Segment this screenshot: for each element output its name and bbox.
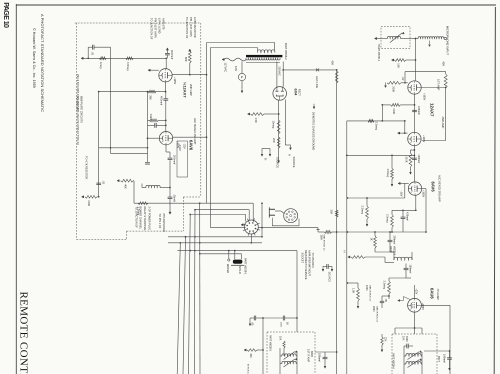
arrow T1 grid: [148, 69, 159, 71]
svg-text:REQUIRED TO SERVICE: REQUIRED TO SERVICE: [304, 250, 308, 280]
note in run 13 bottom: [247, 364, 249, 374]
ground left of D4: [249, 318, 251, 326]
capacitor .05 V4: [380, 301, 384, 302]
svg-text:TO ADJ CAP,: TO ADJ CAP,: [76, 96, 80, 111]
transformer secondary winding: [246, 58, 280, 62]
run y=104.9: [381, 104, 390, 106]
svg-text:PART #8038-2: PART #8038-2: [284, 43, 288, 60]
svg-text:WAFER: WAFER: [226, 264, 230, 273]
note to 4.7K resistor column: [85, 156, 89, 179]
pentode V4 6AU6 4th amp: [408, 298, 422, 312]
ground 180mmf: [324, 363, 326, 368]
resistor 1.5K power: [251, 113, 265, 116]
svg-text:AMPLIFIER WITHOUT: AMPLIFIER WITHOUT: [308, 250, 312, 276]
bundle wire 1: [177, 242, 181, 374]
label 2ND AMP right: [441, 117, 445, 129]
arrow 30K bottom: [244, 349, 246, 351]
svg-text:+140V: +140V: [178, 144, 181, 151]
resistor 3.3 meg on rail: [126, 57, 133, 60]
note socket col 3: [308, 250, 312, 276]
svg-text:RELAY & TERMINAL: RELAY & TERMINAL: [143, 207, 147, 232]
page number PAGE 10: [2, 2, 9, 28]
interconnect socket S1: [243, 218, 260, 235]
svg-text:6BW PLATE CIRCUITS: 6BW PLATE CIRCUITS: [80, 96, 84, 123]
label -.55V V3: [399, 191, 402, 197]
wire V4 down: [414, 312, 416, 334]
triode V3 6AV6 3rd amp: [408, 182, 421, 195]
svg-text:100mmf: 100mmf: [442, 354, 445, 363]
run y=198: [347, 183, 405, 198]
transducer base line: [231, 264, 244, 266]
run y=210.3: [392, 209, 417, 211]
resistor 3.3meg V4: [388, 281, 391, 294]
svg-text:6AV6: 6AV6: [430, 182, 435, 193]
svg-text:200mmf: 200mmf: [173, 155, 177, 164]
wire T1 cathode down: [165, 82, 167, 92]
dashed outline D1 bottom a: [77, 238, 127, 240]
svg-text:AMP) 6T8: AMP) 6T8: [162, 18, 166, 30]
bundle wire 2: [183, 236, 186, 374]
page top border rule: [16, 4, 496, 6]
svg-text:© Howard W. Sams & Co., Inc. 1: © Howard W. Sams & Co., Inc. 1959: [32, 28, 36, 88]
dashed outline D1 step: [126, 231, 128, 239]
label +105V V1: [422, 93, 425, 100]
wire T2 grid: [147, 137, 160, 139]
note junction block B col 1: [185, 17, 189, 39]
wire H jog: [285, 144, 290, 146]
svg-text:6BZ6: 6BZ6: [310, 351, 313, 357]
wire pilot lamp leads: [241, 62, 243, 89]
svg-text:1500: 1500: [405, 336, 408, 342]
svg-text:& PIN 1 (2ND: & PIN 1 (2ND: [158, 18, 162, 34]
svg-text:1.5meg: 1.5meg: [386, 169, 390, 178]
svg-text:PIN 9 (1ST AMP): PIN 9 (1ST AMP): [154, 18, 158, 38]
arrow up 68K: [189, 49, 191, 51]
note plate circuits column: [80, 96, 84, 123]
resistor 45K: [444, 74, 447, 88]
label 3.3meg V3a: [386, 214, 390, 223]
label 1.5meg T2: [149, 114, 152, 123]
svg-text:IN RUN 13: IN RUN 13: [247, 364, 249, 374]
svg-text:3.3meg: 3.3meg: [386, 214, 390, 223]
label 20K: [272, 138, 276, 143]
label +100V V2: [422, 135, 425, 142]
IF coil D4 upper: [282, 354, 296, 356]
run y=203.2 to socket: [134, 202, 253, 204]
label 200mmf right: [392, 236, 395, 245]
wire secondary to plate a: [276, 62, 278, 87]
capacitor 400mmf V1: [412, 110, 417, 111]
svg-text:3.3meg: 3.3meg: [126, 62, 130, 71]
note power plug col 1: [134, 207, 138, 229]
svg-text:A PHOTOFACT STANDARD NOTATION: A PHOTOFACT STANDARD NOTATION SCHEMATIC: [40, 14, 45, 112]
run y=252: [375, 251, 394, 253]
wire interstage: [165, 92, 167, 121]
run y=214.5: [190, 214, 246, 216]
capacitor 5K D4: [283, 316, 284, 321]
label 10K D4: [278, 336, 281, 341]
resistor 1.5meg: [391, 169, 394, 180]
wire D3 internals: [404, 346, 422, 374]
wire 200mmf leads: [389, 231, 391, 252]
note TO PIN 1 col: [158, 214, 162, 229]
svg-text:68K: 68K: [184, 57, 188, 62]
bundle wire 4: [194, 210, 196, 374]
wire 1.5K V4 leads: [347, 282, 359, 308]
svg-text:PART #8038-5: PART #8038-5: [268, 335, 271, 351]
svg-text:400mmf: 400mmf: [417, 155, 420, 164]
label .05 D4: [250, 322, 253, 326]
wire T2 cathode drop: [166, 145, 170, 158]
label 40K lower: [124, 184, 128, 189]
resistor 40K H: [351, 256, 365, 259]
svg-text:300K: 300K: [392, 86, 396, 92]
svg-text:PART: PART: [389, 246, 392, 253]
note 1ST IF AMP col: [307, 349, 310, 362]
note junction block A col 2: [154, 18, 158, 38]
svg-text:3.3meg: 3.3meg: [374, 122, 378, 131]
label 400mmf interstage: [160, 96, 164, 105]
svg-text:6AU6: 6AU6: [430, 288, 435, 299]
svg-text:6BC7: 6BC7: [437, 356, 440, 363]
svg-text:30K: 30K: [330, 210, 334, 215]
wire horizontal y=153.4: [111, 152, 148, 154]
run y=69.9 AGC: [283, 69, 337, 71]
resistor 39K cathode T1: [148, 90, 156, 93]
wire D3 to bus450: [424, 350, 450, 352]
wire 150mmf bottom: [406, 277, 411, 279]
svg-text:40K: 40K: [124, 184, 128, 189]
label B-: [264, 158, 268, 161]
transformer primary coil: [257, 50, 275, 53]
note power plug col 3: [143, 207, 147, 232]
triode T1 half-12AX7 2nd amp: [159, 69, 172, 82]
wire V3 plate: [422, 189, 426, 232]
label 1500 D4: [279, 322, 281, 328]
svg-text:TO PIN 1 OF: TO PIN 1 OF: [158, 214, 162, 229]
svg-text:-1V: -1V: [401, 77, 404, 81]
transducer coil in D2: [387, 36, 400, 38]
wire 3.3meg V3a leads: [391, 210, 393, 233]
wire cathode drop x=278.7: [278, 100, 280, 158]
bundle wire 3: [189, 215, 192, 374]
svg-text:100K: 100K: [392, 108, 396, 114]
label +105V T1: [173, 77, 176, 84]
ground source: [269, 149, 271, 157]
coil to 6T8: [146, 185, 160, 187]
ground 22K: [381, 347, 383, 352]
label 400mmf V1: [417, 106, 420, 115]
label 1500 D3: [405, 336, 408, 342]
wire secondary to plate b: [282, 62, 284, 87]
wire cap D4 to corner: [285, 318, 297, 332]
svg-text:100K: 100K: [365, 285, 368, 291]
label 420mmf: [405, 212, 408, 221]
arrow mic left: [375, 37, 377, 39]
AC line cord wavy: [224, 58, 246, 61]
svg-text:180mmf: 180mmf: [317, 353, 320, 362]
resistor 10meg bleeder: [277, 120, 280, 134]
svg-text:+105V: +105V: [421, 190, 424, 197]
label half-12AX7: [183, 82, 188, 98]
svg-text:100K: 100K: [87, 200, 91, 206]
label 30K bottom: [249, 354, 252, 359]
dashed outline D1 bottom b: [127, 230, 184, 232]
arrow 10K: [392, 59, 394, 61]
wire drop into S1 a: [252, 203, 254, 220]
wire drop x=234.8: [234, 251, 236, 260]
title REMOTE CONTROL: [18, 292, 30, 374]
label H feed: [343, 251, 347, 253]
label PART 8038-4: [392, 353, 395, 369]
resistor 22K D3: [381, 337, 384, 345]
junction dot input: [87, 57, 89, 59]
svg-text:+105V: +105V: [421, 303, 424, 310]
dashed outline D1 right edge: [200, 23, 202, 197]
service plug prongs: [269, 207, 275, 217]
wire V1 plate run: [421, 87, 446, 89]
svg-text:1ST AMP: 1ST AMP: [437, 79, 441, 91]
svg-text:& 68K RESISTOR: & 68K RESISTOR: [193, 17, 197, 38]
label 117VAC: [224, 63, 228, 73]
label 6X4: [294, 89, 298, 97]
ground cathode bottom: [278, 158, 280, 163]
copyright line: [32, 28, 36, 88]
svg-text:210K: 210K: [405, 157, 409, 163]
svg-text:PAGE 10: PAGE 10: [2, 2, 9, 28]
svg-text:TO JUNCTION OF: TO JUNCTION OF: [134, 207, 138, 229]
svg-text:AGC KEYED 3RD AMP: AGC KEYED 3RD AMP: [438, 175, 442, 202]
resistor 68K: [188, 51, 191, 63]
arrow H feed: [348, 256, 350, 258]
resistor 100K bottom-left: [85, 195, 97, 198]
svg-text:B-: B-: [264, 158, 268, 161]
svg-text:45K: 45K: [442, 62, 446, 67]
wire plug to socket: [275, 211, 284, 214]
triode V1 12AX7 1st amp: [408, 81, 421, 94]
IF coil D3 lower arrow: [408, 359, 422, 368]
svg-text:H: H: [288, 154, 292, 156]
transducer tuning arrow: [390, 32, 404, 43]
wire 1K leads: [374, 231, 376, 252]
note socket col 2: [304, 250, 308, 280]
label 10K mic: [396, 63, 400, 68]
wire grid run V2: [399, 132, 408, 134]
wire T2 top net: [148, 120, 167, 132]
svg-text:TV CHASSIS: TV CHASSIS: [311, 253, 315, 268]
wire rail y=91.6: [99, 91, 166, 93]
arrow bottom-left: [82, 196, 84, 198]
wire plug loop: [272, 218, 299, 226]
svg-text:RECT: RECT: [298, 89, 302, 96]
svg-text:-.55V: -.55V: [399, 191, 402, 197]
wire B+ y=328: [395, 327, 422, 334]
svg-text:PART #8038-1: PART #8038-1: [244, 258, 248, 275]
IF coil D4 upper arrow: [284, 351, 298, 360]
svg-text:400mmf: 400mmf: [417, 106, 420, 115]
screen grid loop V4: [398, 297, 410, 302]
wire x=263 drop: [262, 318, 264, 374]
capacitor D3 coupling: [404, 344, 413, 349]
wire cap V2 gap: [413, 160, 415, 162]
svg-text:6X4: 6X4: [294, 89, 298, 97]
label 100mmf D3: [442, 354, 445, 363]
capacitor 400mmf interstage: [163, 99, 168, 100]
arrow up to junction: [166, 48, 168, 50]
svg-text:-22V: -22V: [182, 144, 185, 150]
label 3.3meg V3b: [361, 206, 365, 215]
rectifier V5 6X4: [273, 87, 287, 101]
svg-text:TO JUNCTION OF: TO JUNCTION OF: [150, 18, 154, 40]
resistor 210K V2 cathode: [409, 153, 412, 167]
dashed outline D1 jog a: [183, 196, 201, 198]
rail B x=210.5: [210, 48, 212, 228]
ground pilot lamp: [241, 88, 243, 93]
label 6AV6 left: [188, 140, 193, 151]
run y=250.6: [178, 250, 298, 252]
label AGC LINE: [315, 76, 319, 88]
label 100K V1: [392, 108, 396, 114]
run y=209.7: [195, 209, 249, 211]
wire 210K leads: [410, 149, 416, 174]
label PART 8038-1 mic: [377, 45, 381, 62]
mic tip terminal: [444, 37, 446, 39]
svg-text:SOCKET: SOCKET: [301, 253, 305, 264]
svg-text:DENOTES CHASSIS GROUND: DENOTES CHASSIS GROUND: [311, 112, 315, 150]
wire T1 grid drop: [165, 57, 167, 68]
dashed outline D1 top edge: [75, 22, 201, 24]
wire mic coil leads: [416, 38, 419, 40]
bus wire x=336.7: [336, 70, 338, 374]
svg-text:40K: 40K: [330, 61, 334, 66]
arrow down 6T8: [169, 212, 171, 214]
note socket col 1: [301, 253, 305, 264]
note amplifier circuits column: [76, 74, 79, 145]
resistor 20K bleeder: [277, 137, 280, 148]
bus wire x=347.4: [346, 121, 348, 374]
label 6AU6: [430, 288, 435, 299]
pilot lamp: [238, 73, 245, 80]
svg-text:OAK IN RUN 13: OAK IN RUN 13: [323, 235, 326, 252]
ground H: [290, 145, 292, 150]
capacitor 150mmf: [404, 264, 409, 279]
note 6BC7 col: [437, 356, 440, 363]
ground 100mmf: [449, 365, 451, 370]
svg-text:TO JUNCTION OF: TO JUNCTION OF: [185, 17, 189, 39]
ground B-: [261, 149, 270, 157]
label 200K col: [372, 306, 375, 312]
label SON-R col: [238, 266, 242, 274]
resistor 1K: [374, 236, 377, 248]
label PART D4 col: [268, 335, 271, 351]
arrow 1.5K feed: [248, 113, 250, 115]
label SOURCE cluster: [328, 272, 331, 283]
svg-text:OAK IN RUN 13: OAK IN RUN 13: [375, 306, 378, 323]
wire 40K H to coil: [365, 257, 394, 263]
wire 3.3meg V3b leads: [366, 197, 368, 226]
svg-text:1.5meg: 1.5meg: [149, 114, 152, 123]
label 100K run col: [319, 235, 322, 241]
label 100K bottom-left: [87, 200, 91, 206]
stub T-bar: [317, 228, 320, 232]
label 2ND AMP left: [189, 84, 193, 96]
svg-text:30K: 30K: [249, 354, 252, 359]
label 1.5K V4: [352, 288, 356, 294]
svg-text:400mmf: 400mmf: [160, 96, 164, 105]
svg-text:AGC LINE: AGC LINE: [315, 76, 319, 88]
resistor small D4: [283, 341, 285, 348]
label 6.3V: [234, 66, 237, 71]
wire S1 bottom pin: [250, 234, 252, 244]
svg-text:+100V: +100V: [422, 135, 425, 142]
wire V2 grid drop: [404, 120, 406, 134]
resistor 30K bottom: [247, 349, 257, 352]
label 1K: [370, 238, 374, 241]
wire corner x=241.4: [240, 254, 242, 259]
wire 10K to grid: [406, 59, 417, 61]
capacitor 400mmf T1 grid: [165, 50, 170, 58]
capacitor 200mmf below T2: [168, 158, 173, 159]
note junction block B col 2: [189, 17, 193, 37]
oscillator coil PART 8038-3: [394, 257, 412, 260]
label 300K V1: [392, 86, 396, 92]
label 8038-3 col: [392, 246, 395, 256]
IF coil D4 lower: [282, 361, 296, 363]
label 200mmf below T2: [173, 155, 177, 164]
run y=318: [262, 317, 283, 319]
label 150mmf: [408, 265, 411, 274]
junction dot 250V: [282, 69, 284, 71]
label 40K bus top: [330, 61, 334, 66]
wire input rail y=58.3: [83, 57, 166, 59]
svg-text:22K: 22K: [384, 337, 387, 342]
bypass loop left leg: [87, 47, 89, 58]
wire T1 plate rail y=74.7: [172, 74, 207, 76]
run y=155.4: [346, 155, 414, 157]
label .05 lower-left: [101, 181, 105, 185]
svg-text:200mmf: 200mmf: [392, 236, 395, 245]
svg-text:PART #8038-4: PART #8038-4: [392, 353, 395, 369]
resistor 1.5K V4: [357, 288, 360, 301]
svg-text:200K: 200K: [372, 306, 375, 312]
IF coil D3 upper: [406, 354, 421, 356]
wire 1.5K to drop: [264, 113, 280, 115]
note 6T8 AMPLIFIER col: [162, 214, 166, 233]
svg-text:AGC BIASED 2ND AMP: AGC BIASED 2ND AMP: [193, 118, 196, 145]
label 39K: [149, 95, 153, 100]
svg-text:400mmf: 400mmf: [170, 50, 174, 59]
triode V2 12AX7 2nd amp: [408, 132, 421, 145]
svg-text:½12AX7: ½12AX7: [183, 82, 188, 98]
svg-text:H: H: [343, 251, 347, 253]
note junction block B col 3: [193, 17, 197, 38]
svg-text:100K: 100K: [319, 235, 322, 241]
svg-text:10K: 10K: [396, 63, 400, 68]
svg-text:10K: 10K: [278, 336, 281, 341]
capacitor 100mmf D3: [447, 351, 452, 366]
svg-text:+22V: +22V: [415, 289, 418, 295]
svg-text:P: P: [241, 76, 243, 80]
svg-text:2 OF POWER PLUG: 2 OF POWER PLUG: [148, 207, 152, 231]
svg-text:MICROPHONE INPUT: MICROPHONE INPUT: [446, 26, 450, 56]
note oak run col 3: [375, 306, 378, 323]
wire mic through box: [377, 38, 417, 40]
note junction block A col 4: [162, 18, 166, 30]
label 1 meg: [99, 62, 103, 69]
run y=227.6 socket left: [211, 224, 246, 228]
svg-text:420mmf: 420mmf: [405, 212, 408, 221]
note junction block A col 1: [150, 18, 154, 40]
